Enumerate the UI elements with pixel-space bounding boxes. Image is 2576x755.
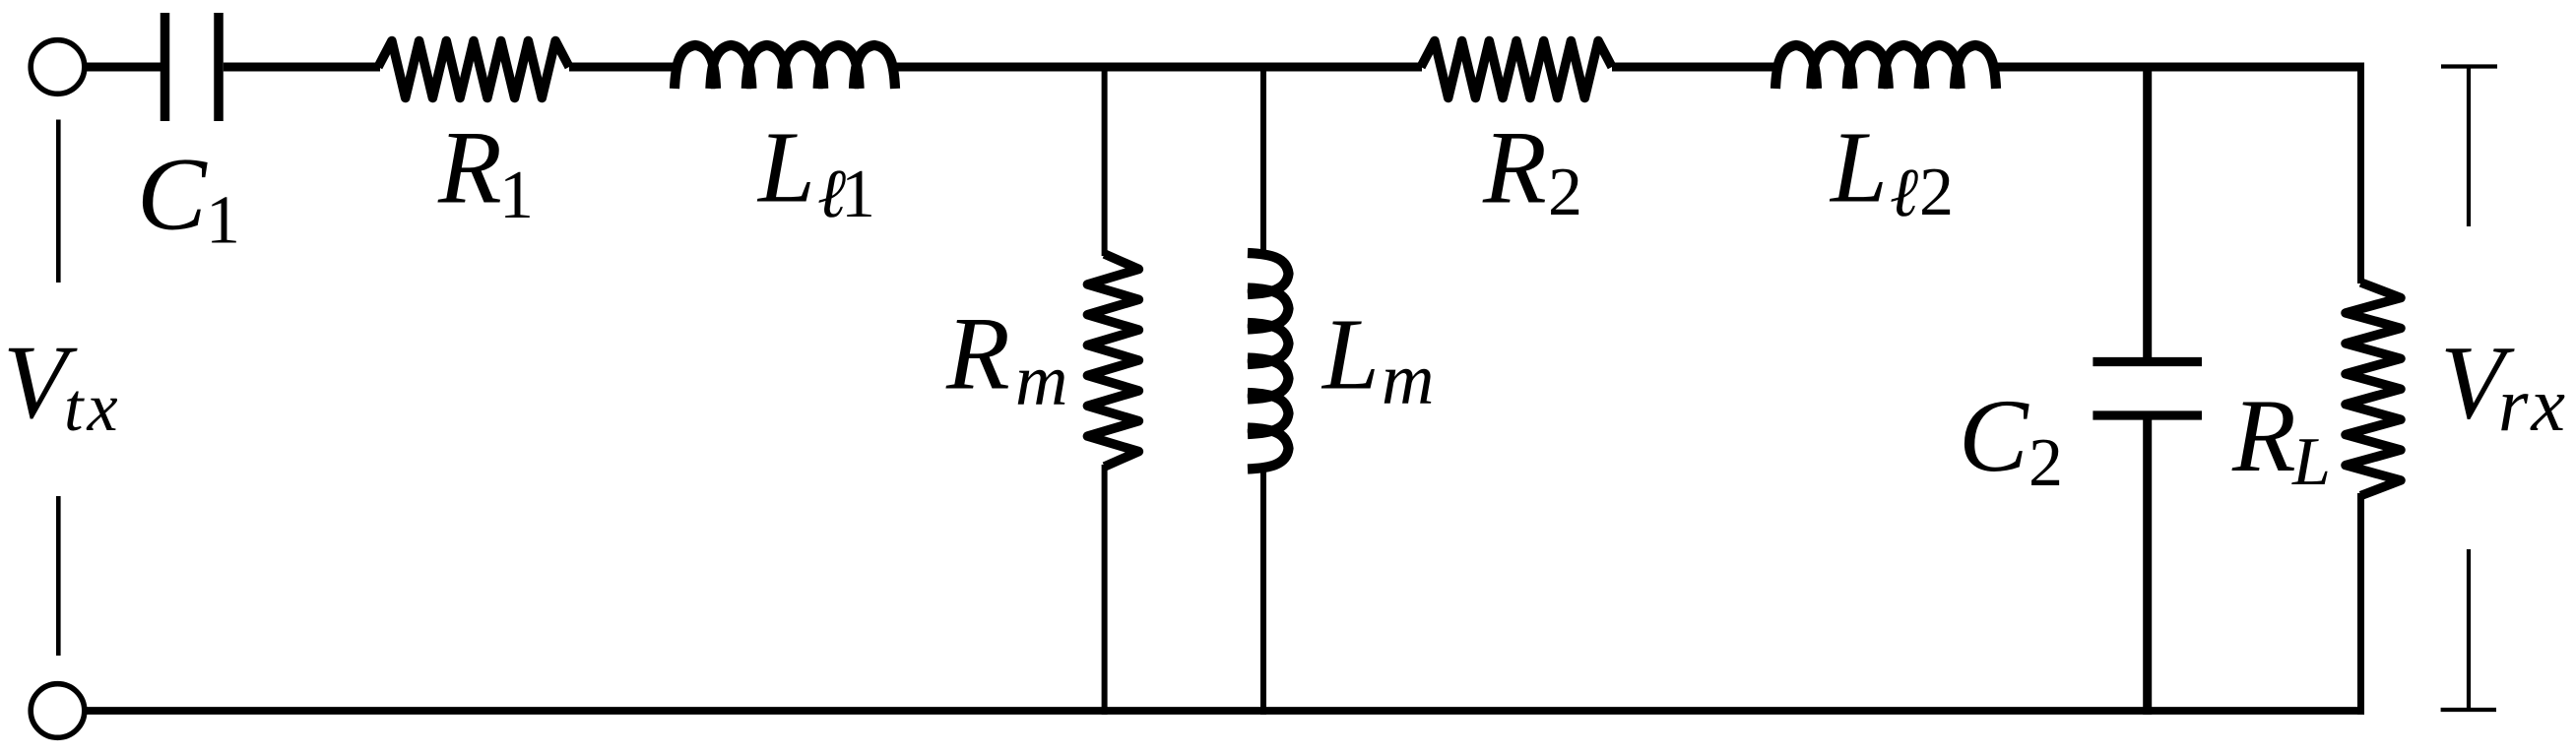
Vrx top measurement mark <box>2441 67 2497 227</box>
svg-text:rx: rx <box>2498 361 2568 447</box>
C2 branch wire bottom <box>2143 420 2152 716</box>
svg-text:ℓ: ℓ <box>1890 156 1918 231</box>
svg-text:2: 2 <box>1548 155 1582 230</box>
Vtx upper lead wire <box>56 120 61 283</box>
wire Ll1 to R2 (through shunt junctions) <box>891 63 1422 72</box>
svg-text:m: m <box>1015 341 1069 421</box>
Lm branch wire top <box>1260 63 1266 257</box>
wire C1 to R1 <box>224 63 380 72</box>
svg-text:L: L <box>756 110 815 223</box>
svg-text:R: R <box>437 109 502 224</box>
Rm branch wire bottom <box>1102 465 1108 715</box>
svg-text:L: L <box>1829 110 1888 223</box>
svg-text:2: 2 <box>1919 155 1954 230</box>
Vrx bottom measurement mark <box>2441 549 2496 710</box>
wire terminal to C1 <box>87 63 161 72</box>
RL branch wire top <box>2357 63 2364 284</box>
RL branch wire bottom <box>2357 493 2364 715</box>
wire Ll2 to top-right corner <box>1992 63 2361 72</box>
Lm branch wire bottom <box>1260 467 1266 715</box>
svg-text:1: 1 <box>206 182 240 258</box>
svg-text:R: R <box>945 296 1010 411</box>
resistor R1 <box>378 41 569 98</box>
resistor R2 <box>1421 41 1612 98</box>
svg-text:m: m <box>1382 340 1436 420</box>
svg-text:R: R <box>2231 378 2296 493</box>
svg-text:2: 2 <box>2029 425 2063 501</box>
svg-text:L: L <box>2291 424 2331 500</box>
capacitor C1 <box>165 13 220 121</box>
inductor Lm <box>1248 253 1289 470</box>
resistor Rm <box>1087 254 1138 467</box>
terminal top-left <box>31 40 85 94</box>
wire R1 to Ll1 <box>569 63 678 72</box>
C2 branch wire top <box>2143 63 2152 358</box>
svg-text:1: 1 <box>499 157 534 233</box>
resistor RL <box>2346 283 2401 496</box>
svg-text:1: 1 <box>841 157 875 232</box>
terminal bottom-left <box>31 684 85 738</box>
svg-text:C: C <box>1959 378 2029 493</box>
svg-text:L: L <box>1320 298 1380 411</box>
Rm branch wire top <box>1102 63 1108 257</box>
svg-text:R: R <box>1482 109 1547 224</box>
svg-text:tx: tx <box>64 370 122 446</box>
bottom rail wire <box>87 707 2364 715</box>
wire R2 to Ll2 <box>1612 63 1779 72</box>
svg-text:C: C <box>137 137 208 252</box>
inductor Ll1 <box>675 45 895 89</box>
Vtx lower lead wire <box>56 496 61 656</box>
capacitor C2 <box>2093 362 2202 416</box>
inductor Ll2 <box>1775 45 1996 89</box>
